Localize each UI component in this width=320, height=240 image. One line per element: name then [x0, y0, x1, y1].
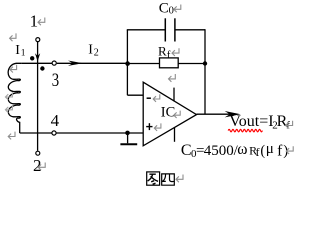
wire: feedback right vertical: [204, 29, 206, 114]
wire: main vertical from terminal 1 to terminal 2: [37, 42, 39, 151]
mark after C0 formula: [286, 146, 293, 154]
wire: upper horizontal (inductor top to node 3): [22, 62, 52, 64]
wire: feedback left vertical: [126, 30, 128, 95]
wire: Rf branch left: [127, 63, 159, 65]
terminal 4 circle: [52, 131, 56, 135]
I1 arrowhead (downward): [35, 53, 40, 61]
图: [147, 172, 160, 185]
paragraph return marks (gray): [5, 5, 293, 183]
output arrowhead: [225, 111, 241, 117]
mark after plus: [154, 123, 161, 131]
svg-text:f: f: [277, 142, 283, 159]
svg-text:I: I: [15, 43, 20, 58]
svg-text:C: C: [159, 1, 169, 17]
svg-text:C: C: [181, 142, 192, 159]
wire: inverting input horizontal: [127, 94, 143, 96]
junction J1: [125, 61, 130, 66]
mark on coil 2: [5, 105, 12, 113]
op-amp minus sign: [147, 97, 151, 99]
inductor L coil: [8, 63, 22, 133]
svg-text:Vout=I: Vout=I: [229, 113, 273, 130]
terminal 2 circle: [36, 151, 40, 155]
svg-text:3: 3: [52, 70, 59, 91]
四: [162, 174, 175, 185]
ground bar: [120, 143, 137, 145]
terminal 3 circle: [52, 61, 56, 65]
mark after C0: [174, 5, 181, 13]
svg-text:4500: 4500: [204, 143, 234, 159]
terminal 1 circle: [36, 38, 40, 42]
mark left at inductor bottom: [8, 132, 15, 140]
svg-text:f: f: [167, 49, 171, 61]
mark after 图四: [176, 175, 183, 183]
resistor Rf box: [160, 58, 179, 68]
wire: node 4 to non-inverting input: [57, 132, 144, 134]
mark after Vout formula: [286, 121, 293, 129]
junction J3 (ground tap): [125, 131, 130, 136]
svg-text:IC: IC: [161, 104, 176, 120]
ground stem: [127, 133, 129, 143]
red spellcheck squiggle under Vout: [228, 129, 262, 132]
svg-text:1: 1: [30, 11, 38, 30]
op-amp U1 triangle: [143, 82, 196, 146]
svg-text:0: 0: [169, 5, 174, 16]
junction J2: [203, 61, 207, 65]
mark after "1": [38, 18, 45, 26]
mark above triangle: [169, 74, 176, 82]
wire: output: [197, 113, 233, 115]
switch contact dot upper: [30, 56, 34, 60]
svg-text:1: 1: [21, 49, 26, 59]
label 图四 (figure four) drawn as strokes: [147, 172, 175, 185]
mark after "2": [38, 163, 45, 171]
svg-text:f: f: [256, 145, 260, 159]
svg-text:4: 4: [51, 111, 60, 130]
wire: C0 branch right: [175, 29, 205, 31]
op-amp bottom power stub: [174, 127, 176, 142]
svg-text:ω: ω: [237, 141, 247, 158]
op-amp plus sign: [146, 126, 152, 128]
mark after IC: [174, 111, 180, 118]
svg-text:μ: μ: [266, 141, 274, 157]
wire: Rf branch right: [178, 63, 205, 65]
op-amp top power stub: [173, 88, 175, 102]
mark left margin upper: [10, 33, 16, 41]
svg-text:R: R: [158, 44, 167, 59]
mark after minus: [153, 94, 160, 102]
mark on coil 1: [5, 92, 12, 100]
mark left at inductor top: [10, 65, 17, 73]
switch contact dot lower: [40, 66, 44, 70]
capacitor C0 plates: [164, 18, 166, 41]
I2 arrowhead (rightward): [68, 61, 83, 66]
svg-text:(: (: [260, 143, 265, 159]
wire: C0 branch left: [127, 29, 166, 31]
svg-text:I: I: [88, 42, 93, 57]
wire: bottom horizontal (inductor bottom to node 4): [20, 132, 52, 134]
mark after Rf: [172, 48, 179, 56]
svg-text:2: 2: [94, 48, 99, 59]
wire: I2 horizontal from node 3 to junction J1: [57, 62, 128, 64]
